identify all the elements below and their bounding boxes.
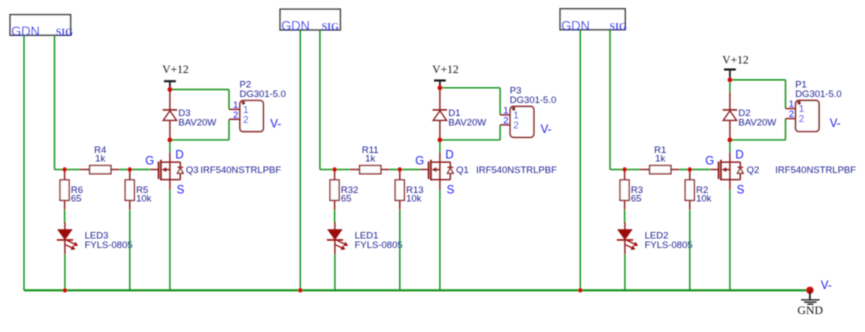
svg-text:Q1: Q1 [456,165,469,176]
junction dot V+12 branch (channel 1) [438,85,443,90]
wire SIG vertical (channel 1) [319,30,321,170]
svg-text:Q2: Q2 [747,165,760,176]
wire drain of Q3 to diode node [169,140,171,152]
mosfet Q1 source-bulk vertical [439,162,441,180]
wire GDN vertical to bottom rail (channel 3) [23,35,25,290]
svg-text:1k: 1k [365,154,375,165]
LED LED3 cathode lead [64,241,66,255]
svg-text:IRF540NSTRLPBF: IRF540NSTRLPBF [200,165,281,176]
LED LED3 cathode bar [57,239,73,241]
wire LED2 to bottom rail [624,254,626,290]
LED LED1 cathode bar [327,239,343,241]
wire R11 to gate (channel 1) [389,169,420,171]
svg-text:2: 2 [243,115,249,126]
LED LED2 emission arrows [625,241,637,249]
svg-text:SIG: SIG [56,27,73,38]
mosfet Q2 body diode [737,168,743,173]
wire R1 to gate (channel 2) [679,169,710,171]
resistor R5 (10k) vertical [129,170,131,180]
wire R3 to LED2 [624,210,626,223]
svg-text:2: 2 [789,109,794,120]
svg-text:GND: GND [797,303,823,317]
wire gate lead of Q3 [150,169,158,171]
wire SIG elbow to gate row (channel 2) [610,169,625,171]
wire P1 pin 2 to drain node [785,119,787,140]
svg-text:S: S [177,184,185,196]
svg-text:V-: V- [830,118,841,130]
LED LED3 triangle [58,230,72,240]
resistor R13 (10k) vertical [399,170,401,180]
svg-text:2: 2 [513,121,519,132]
mosfet Q3 body-diode branch vertical [179,162,181,180]
diode D3 BAV20W cathode lead [169,90,171,110]
svg-text:1k: 1k [655,154,665,165]
svg-text:G: G [415,156,424,168]
wire gate row dot to R11 [335,169,350,171]
mosfet Q2 body-diode branch vertical [739,162,741,180]
wire R5 to bottom rail [129,210,131,290]
svg-text:2: 2 [799,114,805,125]
wire V+12 dot to diode cathode (channel 2) [729,80,731,92]
resistor R11 (1k) horizontal [350,169,360,171]
LED LED2 cathode bar [617,239,633,241]
resistor R4 (1k) horizontal [80,169,90,171]
LED LED2 anode lead [624,222,626,230]
resistor R3 (65) vertical [624,170,626,180]
connector P3 pin-1 marker dot [512,107,516,111]
mosfet Q2 drain stub [721,161,740,163]
svg-text:GDN: GDN [281,18,309,33]
svg-text:G: G [705,156,714,168]
mosfet Q1 bulk arrow [435,169,440,171]
mosfet Q3 source stub [161,179,180,181]
port connector J2 (GDN/SIG) [560,9,625,30]
connector P3 body [510,106,534,137]
mosfet Q3 body diode [177,168,183,173]
mosfet Q2 channel bar [720,160,722,181]
diode D2 triangle [723,111,736,121]
svg-text:FYLS-0805: FYLS-0805 [645,240,693,251]
svg-text:GDN: GDN [561,18,589,33]
port connector J3 (GDN/SIG) [10,15,71,36]
diode D1 triangle [433,111,446,121]
wire GDN vertical to bottom rail (channel 1) [299,30,301,290]
wire gate row dot to R4 [65,169,80,171]
mosfet Q3 bulk arrow [165,169,170,171]
LED LED2 triangle [618,230,632,240]
wire GDN vertical to bottom rail (channel 2) [579,30,581,291]
connector P3 pin 2 stub [500,124,510,126]
LED LED2 cathode lead [624,241,626,255]
junction dot rail at GDN channel 1 [298,288,302,292]
junction dot rail at GND [806,287,813,294]
svg-text:G: G [145,156,154,168]
LED LED1 cathode lead [334,241,336,255]
svg-text:65: 65 [341,194,352,205]
wire R2 to bottom rail [689,210,691,290]
wire bottom V- rail [24,289,810,291]
mosfet Q3 source-bulk vertical [169,162,171,180]
port connector J1 (GDN/SIG) [280,9,340,30]
mosfet Q1 gate bar [428,162,430,180]
svg-text:BAV20W: BAV20W [448,118,486,129]
mosfet Q2 source stub [721,179,740,181]
wire V+12 to P3 pin 1 [440,87,500,89]
svg-text:10k: 10k [696,194,712,205]
svg-text:65: 65 [631,194,642,205]
resistor R32 (65) vertical [334,170,336,180]
mosfet Q3 channel bar [160,160,162,181]
svg-text:D: D [445,150,453,162]
connector P2 pin 2 stub [229,118,240,120]
junction dot rail at LED3 [63,288,67,292]
diode D3 triangle [163,111,176,121]
mosfet Q2 bulk arrow [725,169,730,171]
svg-text:V+12: V+12 [722,55,749,67]
svg-text:V-: V- [821,280,832,292]
svg-text:IRF540NSTRLPBF: IRF540NSTRLPBF [476,165,557,176]
diode D1 BAV20W cathode lead [439,88,441,110]
svg-text:BAV20W: BAV20W [178,118,216,129]
junction dot V+12 branch (channel 3) [168,87,173,92]
svg-text:IRF540NSTRLPBF: IRF540NSTRLPBF [775,165,856,176]
LED LED1 emission arrows [335,241,347,249]
svg-text:1k: 1k [95,154,105,165]
junction dot gate row left (channel 1) [332,167,336,171]
wire R6 to LED3 [64,210,66,223]
wire drain of Q1 to diode node [439,140,441,152]
wire SIG vertical (channel 3) [54,35,56,169]
wire gate lead of Q1 [420,169,428,171]
wire gate lead of Q2 [710,169,718,171]
svg-text:V-: V- [541,124,552,136]
connector P2 pin 1 stub [229,108,240,110]
resistor R2 (10k) vertical [689,170,691,180]
mosfet Q2 gate bar [718,162,720,180]
wire SIG vertical (channel 2) [609,30,611,170]
svg-text:FYLS-0805: FYLS-0805 [85,240,133,251]
connector P1 body [796,100,819,131]
wire P2 pin 2 to drain node [228,119,230,140]
connector P3 pin 1 stub [500,114,510,116]
wire R4 to gate (channel 3) [119,169,150,171]
wire SIG elbow to gate row (channel 3) [55,169,65,171]
junction dot gate row left (channel 3) [62,167,66,171]
svg-text:S: S [737,184,745,196]
svg-text:SIG: SIG [609,22,626,33]
diode D2 anode lead [729,120,731,139]
LED LED3 anode lead [64,222,66,230]
junction dot diode anode / drain node (channel 1) [438,138,443,143]
mosfet Q1 body-diode branch vertical [449,162,451,180]
svg-text:10k: 10k [136,194,152,205]
connector P1 pin-1 marker dot [797,101,801,105]
connector P1 pin 1 stub [786,108,796,110]
svg-text:SIG: SIG [322,22,339,33]
junction dot gate row left (channel 2) [622,167,626,171]
wire LED3 to bottom rail [64,254,66,290]
diode D1 anode lead [439,120,441,139]
mosfet Q1 source stub [431,179,450,181]
svg-text:DG301-5.0: DG301-5.0 [240,89,286,100]
diode D3 anode lead [169,120,171,139]
connector P1 pin 2 stub [786,118,796,120]
wire V+12 to P1 pin 1 [730,79,786,81]
svg-text:Q3: Q3 [186,165,199,176]
svg-text:10k: 10k [406,194,422,205]
mosfet Q1 body diode [447,168,453,173]
svg-text:V-: V- [270,118,281,130]
connector P2 body [240,101,263,132]
mosfet Q1 channel bar [430,160,432,181]
junction dot diode anode / drain node (channel 2) [728,138,733,143]
svg-text:V+12: V+12 [432,64,459,76]
svg-text:65: 65 [71,194,82,205]
wire source of Q1 to bottom rail [439,180,441,190]
wire drain of Q2 to diode node [729,140,731,152]
resistor R1 (1k) horizontal [640,169,650,171]
svg-text:GDN: GDN [11,23,39,38]
svg-text:2: 2 [233,110,238,121]
junction dot gate row right (channel 3) [128,167,132,171]
wire gate row dot to R1 [625,169,640,171]
connector P2 pin-1 marker dot [242,101,246,105]
svg-text:DG301-5.0: DG301-5.0 [510,95,556,106]
resistor R6 (65) vertical [64,170,66,180]
junction dot V+12 branch (channel 2) [728,78,733,83]
wire source of Q2 to bottom rail [729,180,731,190]
LED LED3 emission arrows [65,241,77,249]
wire P3 pin 2 to drain node [499,125,501,140]
svg-text:FYLS-0805: FYLS-0805 [355,240,403,251]
junction dot diode anode / drain node (channel 3) [168,138,173,143]
diode D2 cathode bar [723,109,738,111]
mosfet Q3 drain stub [161,161,180,163]
junction dot rail at GDN channel 2 [578,288,582,292]
LED LED1 triangle [328,230,342,240]
diode D2 BAV20W cathode lead [729,92,731,110]
wire source of Q3 to bottom rail [169,180,171,190]
svg-text:BAV20W: BAV20W [738,118,776,129]
LED LED1 anode lead [334,222,336,230]
diode D3 cathode bar [163,109,178,111]
svg-text:S: S [447,184,455,196]
mosfet Q2 source-bulk vertical [729,162,731,180]
svg-text:2: 2 [503,115,508,126]
mosfet Q1 drain stub [431,161,450,163]
wire V+12 to P2 pin 1 [170,89,229,91]
junction dot gate row right (channel 1) [398,167,402,171]
wire R32 to LED1 [334,210,336,223]
wire R13 to bottom rail [399,210,401,290]
diode D1 cathode bar [433,109,448,111]
junction dot gate row right (channel 2) [688,167,692,171]
wire LED1 to bottom rail [334,254,336,290]
wire SIG elbow to gate row (channel 1) [320,169,335,171]
svg-text:V+12: V+12 [162,64,189,76]
ground GND symbol [809,290,811,300]
svg-text:D: D [175,150,183,162]
mosfet Q3 gate bar [158,162,160,180]
svg-text:DG301-5.0: DG301-5.0 [795,89,841,100]
svg-text:D: D [735,150,743,162]
